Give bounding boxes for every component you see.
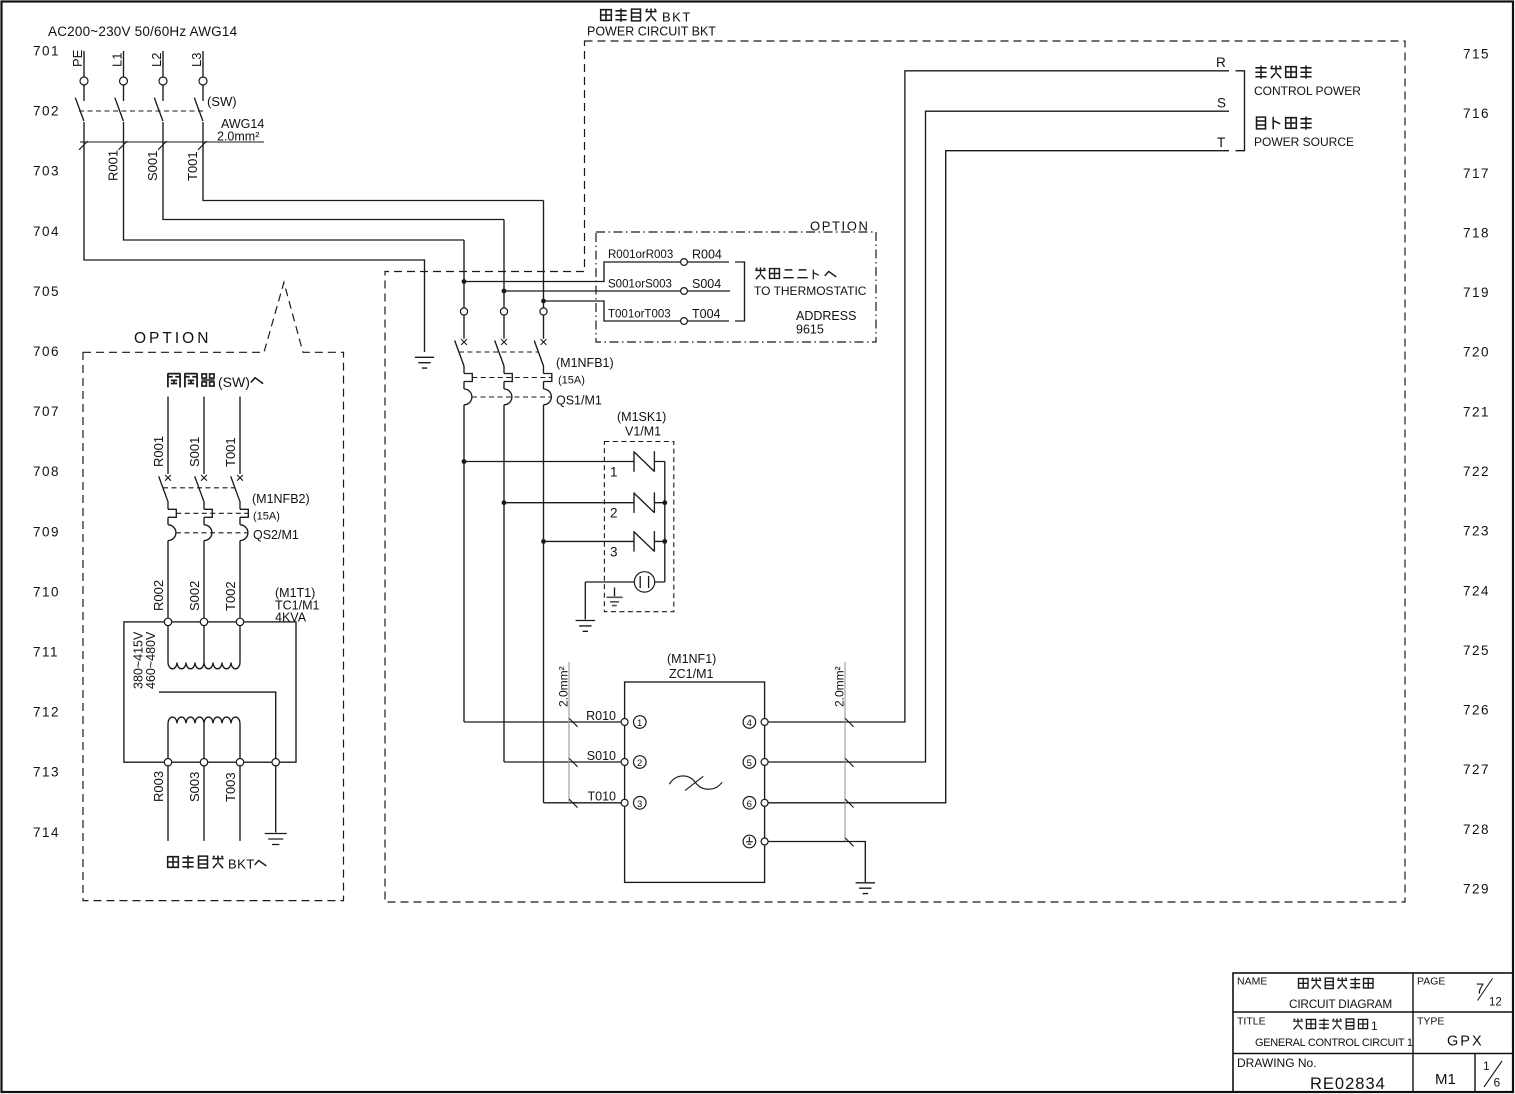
- ground (transformer): [265, 834, 287, 845]
- wire to SW S001 with x mark: [201, 397, 207, 481]
- svg-text:T001orT003: T001orT003: [608, 309, 671, 321]
- svg-text:OPTION: OPTION: [134, 330, 211, 347]
- POWER CIRCUIT BKT dashed boundary: [385, 41, 1405, 902]
- svg-text:(M1NF1): (M1NF1): [667, 652, 716, 666]
- svg-text:6: 6: [1494, 1076, 1501, 1090]
- junction R branch: [462, 279, 467, 284]
- svg-text:2.0mm²: 2.0mm²: [557, 666, 571, 707]
- svg-text:710: 710: [33, 584, 60, 599]
- title block row dividers: [1233, 973, 1513, 1092]
- svg-text:R001: R001: [106, 150, 121, 181]
- wire R001: [124, 122, 465, 240]
- svg-text:720: 720: [1463, 345, 1490, 360]
- wire R010 row: [464, 721, 621, 723]
- svg-text:ADDRESS: ADDRESS: [796, 309, 856, 323]
- svg-text:L2: L2: [149, 53, 164, 67]
- top right bracket: [1236, 71, 1245, 151]
- junction bus row3: [662, 539, 667, 544]
- wire to SW T001 with x mark: [237, 397, 243, 481]
- svg-text:712: 712: [33, 705, 60, 720]
- svg-text:1: 1: [637, 718, 642, 729]
- transformer top terminal T002: [236, 618, 243, 625]
- svg-text:721: 721: [1463, 404, 1490, 419]
- svg-text:AC200~230V 50/60Hz AWG14: AC200~230V 50/60Hz AWG14: [48, 24, 238, 39]
- wire T001orT003 to T004 terminal: [544, 301, 730, 324]
- left OPTION dashed box with tent peak: [83, 282, 344, 900]
- svg-text:PAGE: PAGE: [1417, 976, 1445, 988]
- svg-text:(M1NFB1): (M1NFB1): [556, 356, 614, 370]
- terminal L1: label, wire, circle, switch blade: [110, 51, 128, 121]
- svg-text:(SW): (SW): [218, 374, 250, 390]
- wire S010 row: [504, 761, 621, 763]
- svg-text:724: 724: [1463, 583, 1490, 598]
- switch SW gang dashed link: [79, 110, 203, 112]
- transformer top terminal R002: [164, 618, 171, 625]
- wire S filter output to top right: [768, 111, 1229, 762]
- svg-text:QS1/M1: QS1/M1: [556, 394, 602, 408]
- svg-text:715: 715: [1463, 47, 1490, 62]
- svg-text:722: 722: [1463, 464, 1490, 479]
- svg-text:3: 3: [610, 545, 618, 560]
- svg-text:711: 711: [33, 645, 59, 660]
- wire R breaker to filter row: [463, 405, 465, 722]
- wire row2 to arrester: [504, 502, 665, 504]
- wire T010 row: [544, 802, 622, 804]
- svg-text:T004: T004: [692, 307, 721, 321]
- junction row1 tap: [462, 459, 467, 464]
- svg-text:BKT: BKT: [228, 857, 255, 872]
- wire R filter output to top right: [768, 71, 1229, 722]
- sheet fraction 1/6: [1483, 1059, 1502, 1090]
- filter output terminal 5: [743, 756, 768, 770]
- wire S003: [203, 766, 205, 841]
- wire T002: [239, 541, 241, 619]
- svg-text:S002: S002: [187, 581, 202, 611]
- svg-text:T: T: [1217, 135, 1225, 150]
- filter output terminal 4: [743, 716, 768, 730]
- breaker M1NFB1 pole 2: [495, 341, 513, 405]
- left margin row numbers 701-714: [33, 44, 60, 840]
- svg-text:3: 3: [637, 799, 642, 810]
- svg-text:POWER CIRCUIT BKT: POWER CIRCUIT BKT: [587, 25, 716, 39]
- junction row3 tap: [541, 539, 546, 544]
- ground below M1SK1: [576, 621, 595, 632]
- wire T filter output to top right: [768, 151, 1229, 803]
- junction T branch: [541, 299, 546, 304]
- svg-text:703: 703: [33, 164, 60, 179]
- svg-text:726: 726: [1463, 703, 1490, 718]
- transformer top terminal S002: [200, 618, 207, 625]
- label 動力電源 (kanji): [1257, 117, 1312, 130]
- svg-text:(SW): (SW): [207, 94, 237, 109]
- primary winding coils: [168, 663, 240, 669]
- svg-text:460~480V: 460~480V: [144, 631, 158, 689]
- filter input terminal 2: [621, 756, 646, 770]
- arrester element 1: [634, 451, 654, 472]
- wire gauge annotation line with slashes: [79, 141, 264, 150]
- transformer tap wire: [159, 692, 276, 758]
- transformer bottom terminal T003: [236, 759, 243, 766]
- filter earth terminal: [743, 835, 768, 848]
- main wire S (x504) vertical with connector circle: [500, 220, 507, 345]
- left 2.0mm2 annotation line with slashes: [569, 662, 578, 808]
- svg-text:S004: S004: [692, 277, 721, 291]
- secondary winding leads: [168, 723, 240, 758]
- svg-text:T001: T001: [185, 151, 200, 181]
- transformer M1T1 box: [124, 622, 296, 762]
- svg-text:QS2/M1: QS2/M1: [253, 528, 299, 542]
- wire earth from filter: [768, 842, 865, 883]
- svg-text:NAME: NAME: [1237, 976, 1267, 988]
- svg-text:2: 2: [637, 758, 642, 769]
- svg-text:R003: R003: [151, 771, 166, 802]
- svg-text:727: 727: [1463, 762, 1490, 777]
- terminal L3: label, wire, circle, switch blade: [189, 51, 207, 121]
- primary winding leads: [168, 626, 240, 663]
- breaker M1NFB1 pole 3: [534, 341, 552, 405]
- wire R002: [167, 541, 169, 619]
- svg-text:L3: L3: [189, 53, 204, 67]
- wire S001: [163, 122, 504, 220]
- wire S breaker to filter row: [503, 405, 505, 762]
- svg-text:2.0mm²: 2.0mm²: [217, 130, 259, 144]
- wire R003: [167, 766, 169, 841]
- wire R001orR003 to R004 terminal: [464, 259, 729, 282]
- svg-text:OPTION: OPTION: [810, 219, 869, 234]
- breaker M1NFB2 pole 3: [231, 476, 249, 540]
- breaker M1NFB2 gang dashed links: [163, 488, 248, 533]
- transformer bottom terminal earth: [272, 759, 279, 766]
- svg-text:TITLE: TITLE: [1237, 1016, 1266, 1028]
- arrester element 2: [634, 492, 654, 513]
- svg-text:702: 702: [33, 104, 60, 119]
- svg-text:CIRCUIT DIAGRAM: CIRCUIT DIAGRAM: [1289, 997, 1392, 1011]
- label 総合制御回路1: [1293, 1018, 1378, 1033]
- svg-text:4: 4: [747, 718, 752, 729]
- svg-text:S010: S010: [587, 749, 616, 763]
- svg-text:GENERAL CONTROL CIRCUIT 1: GENERAL CONTROL CIRCUIT 1: [1255, 1037, 1413, 1049]
- junction bus row2: [662, 500, 667, 505]
- svg-text:PE: PE: [70, 49, 85, 67]
- svg-text:717: 717: [1463, 166, 1490, 181]
- filter output terminal 6: [743, 797, 768, 811]
- wire T003: [239, 766, 241, 841]
- svg-text:(15A): (15A): [558, 375, 585, 387]
- secondary winding coils: [168, 717, 240, 723]
- filter input terminal 1: [621, 716, 646, 730]
- svg-text:705: 705: [33, 284, 60, 299]
- title block outer box: [1233, 973, 1513, 1092]
- wire transformer earth: [275, 766, 277, 833]
- svg-text:(15A): (15A): [253, 511, 280, 523]
- svg-text:S: S: [1217, 96, 1226, 111]
- svg-text:729: 729: [1463, 882, 1490, 897]
- ground (filter earth): [856, 883, 875, 894]
- svg-text:9615: 9615: [796, 323, 824, 337]
- svg-text:719: 719: [1463, 285, 1490, 300]
- breaker M1NFB2 pole 1: [159, 476, 177, 540]
- svg-text:R001orR003: R001orR003: [608, 249, 673, 261]
- terminal L2: label, wire, circle, switch blade: [149, 51, 167, 121]
- arrester bus vertical: [664, 462, 666, 583]
- svg-text:1: 1: [1371, 1019, 1378, 1033]
- svg-text:V1/M1: V1/M1: [625, 425, 661, 439]
- svg-text:704: 704: [33, 224, 60, 239]
- svg-text:BKT: BKT: [662, 10, 692, 25]
- svg-text:713: 713: [33, 765, 60, 780]
- label 電源回路BKT (kanji): [601, 9, 692, 25]
- svg-text:(M1SK1): (M1SK1): [617, 410, 666, 424]
- svg-text:T002: T002: [223, 581, 238, 611]
- svg-text:R004: R004: [692, 248, 722, 262]
- svg-text:S001: S001: [187, 437, 202, 467]
- svg-text:R002: R002: [151, 580, 166, 611]
- svg-text:DRAWING No.: DRAWING No.: [1237, 1056, 1317, 1070]
- wire T001: [203, 122, 544, 201]
- svg-text:714: 714: [33, 825, 60, 840]
- transformer bottom terminal R003: [164, 759, 171, 766]
- discharge capacitor (circle with plates): [585, 572, 665, 592]
- wire T breaker to filter row: [543, 405, 545, 803]
- wire row1 to arrester: [464, 461, 665, 463]
- svg-text:701: 701: [33, 44, 60, 59]
- svg-text:2: 2: [610, 506, 618, 521]
- svg-text:S001orS003: S001orS003: [608, 279, 672, 291]
- svg-text:(M1NFB2): (M1NFB2): [252, 492, 310, 506]
- label 電気回路線図: [1299, 978, 1374, 990]
- ground (PE): [415, 357, 434, 368]
- svg-text:M1: M1: [1435, 1071, 1456, 1088]
- svg-text:5: 5: [747, 758, 752, 769]
- transformer bottom terminal S003: [200, 759, 207, 766]
- wire to SW R001 with x mark: [165, 397, 171, 481]
- surge killer M1SK1 dashed box: [604, 442, 673, 612]
- svg-text:6: 6: [747, 799, 752, 810]
- wire to ground below M1SK1: [584, 582, 586, 620]
- svg-text:T001: T001: [223, 437, 238, 467]
- wire PE down and right to ground: [84, 122, 425, 352]
- label 制御電源 (kanji): [1255, 66, 1311, 79]
- svg-text:RE02834: RE02834: [1310, 1075, 1386, 1093]
- svg-text:TYPE: TYPE: [1417, 1016, 1444, 1028]
- svg-text:T003: T003: [223, 772, 238, 802]
- svg-text:S001: S001: [145, 151, 160, 181]
- noise filter M1NF1 box: [625, 682, 765, 882]
- filter wave symbol: [669, 776, 722, 791]
- svg-text:723: 723: [1463, 524, 1490, 539]
- right 2.0mm2 annotation line with slashes: [845, 662, 854, 846]
- svg-text:R: R: [1216, 55, 1226, 70]
- page fraction 7/12: [1476, 979, 1502, 1009]
- svg-text:728: 728: [1463, 822, 1490, 837]
- right margin row numbers 715-729: [1463, 47, 1490, 897]
- label 電源回路BKTへ: [168, 856, 267, 872]
- svg-text:S003: S003: [187, 772, 202, 802]
- svg-text:L1: L1: [110, 53, 125, 67]
- main wire T (x543.5) vertical with connector circle: [540, 201, 547, 345]
- svg-text:R001: R001: [151, 436, 166, 467]
- svg-text:718: 718: [1463, 225, 1490, 240]
- svg-text:1: 1: [1483, 1059, 1490, 1073]
- filter input terminal 3: [621, 797, 646, 811]
- svg-text:708: 708: [33, 464, 60, 479]
- arrester element 3: [634, 531, 654, 552]
- wire S002: [203, 541, 205, 619]
- svg-text:7: 7: [1476, 982, 1484, 998]
- breaker M1NFB2 pole 2: [195, 476, 213, 540]
- thermostat OPTION dash-dot box: [596, 232, 876, 342]
- svg-text:709: 709: [33, 524, 60, 539]
- svg-text:706: 706: [33, 344, 60, 359]
- svg-text:TO THERMOSTATIC: TO THERMOSTATIC: [754, 284, 867, 298]
- svg-text:ZC1/M1: ZC1/M1: [669, 667, 714, 681]
- svg-text:12: 12: [1489, 997, 1502, 1009]
- breaker M1NFB1 pole 1: [455, 341, 473, 405]
- wire row3 to arrester: [544, 540, 665, 542]
- main wire R (x464) vertical with connector circle: [460, 240, 467, 345]
- svg-text:POWER SOURCE: POWER SOURCE: [1254, 135, 1354, 149]
- label 温調ユニットへ (kanji): [755, 268, 836, 280]
- terminal PE: label, wire, circle, switch blade: [70, 49, 88, 121]
- svg-text:707: 707: [33, 404, 60, 419]
- svg-text:T010: T010: [588, 790, 617, 804]
- svg-text:1: 1: [610, 465, 618, 480]
- svg-text:725: 725: [1463, 643, 1490, 658]
- svg-text:CONTROL POWER: CONTROL POWER: [1254, 84, 1361, 98]
- svg-text:2.0mm²: 2.0mm²: [833, 666, 847, 707]
- wire S001orS003 to S004 terminal: [504, 288, 730, 295]
- svg-text:GPX: GPX: [1447, 1034, 1484, 1050]
- junction S branch: [502, 289, 507, 294]
- thermostat bracket: [735, 262, 745, 321]
- junction row2 tap: [502, 500, 507, 505]
- small ground inside M1SK1: [607, 588, 623, 606]
- svg-text:R010: R010: [586, 709, 616, 723]
- breaker M1NFB1 gang dashed links: [459, 352, 552, 397]
- svg-text:716: 716: [1463, 106, 1490, 121]
- label 開閉器(SW)へ: [168, 373, 263, 390]
